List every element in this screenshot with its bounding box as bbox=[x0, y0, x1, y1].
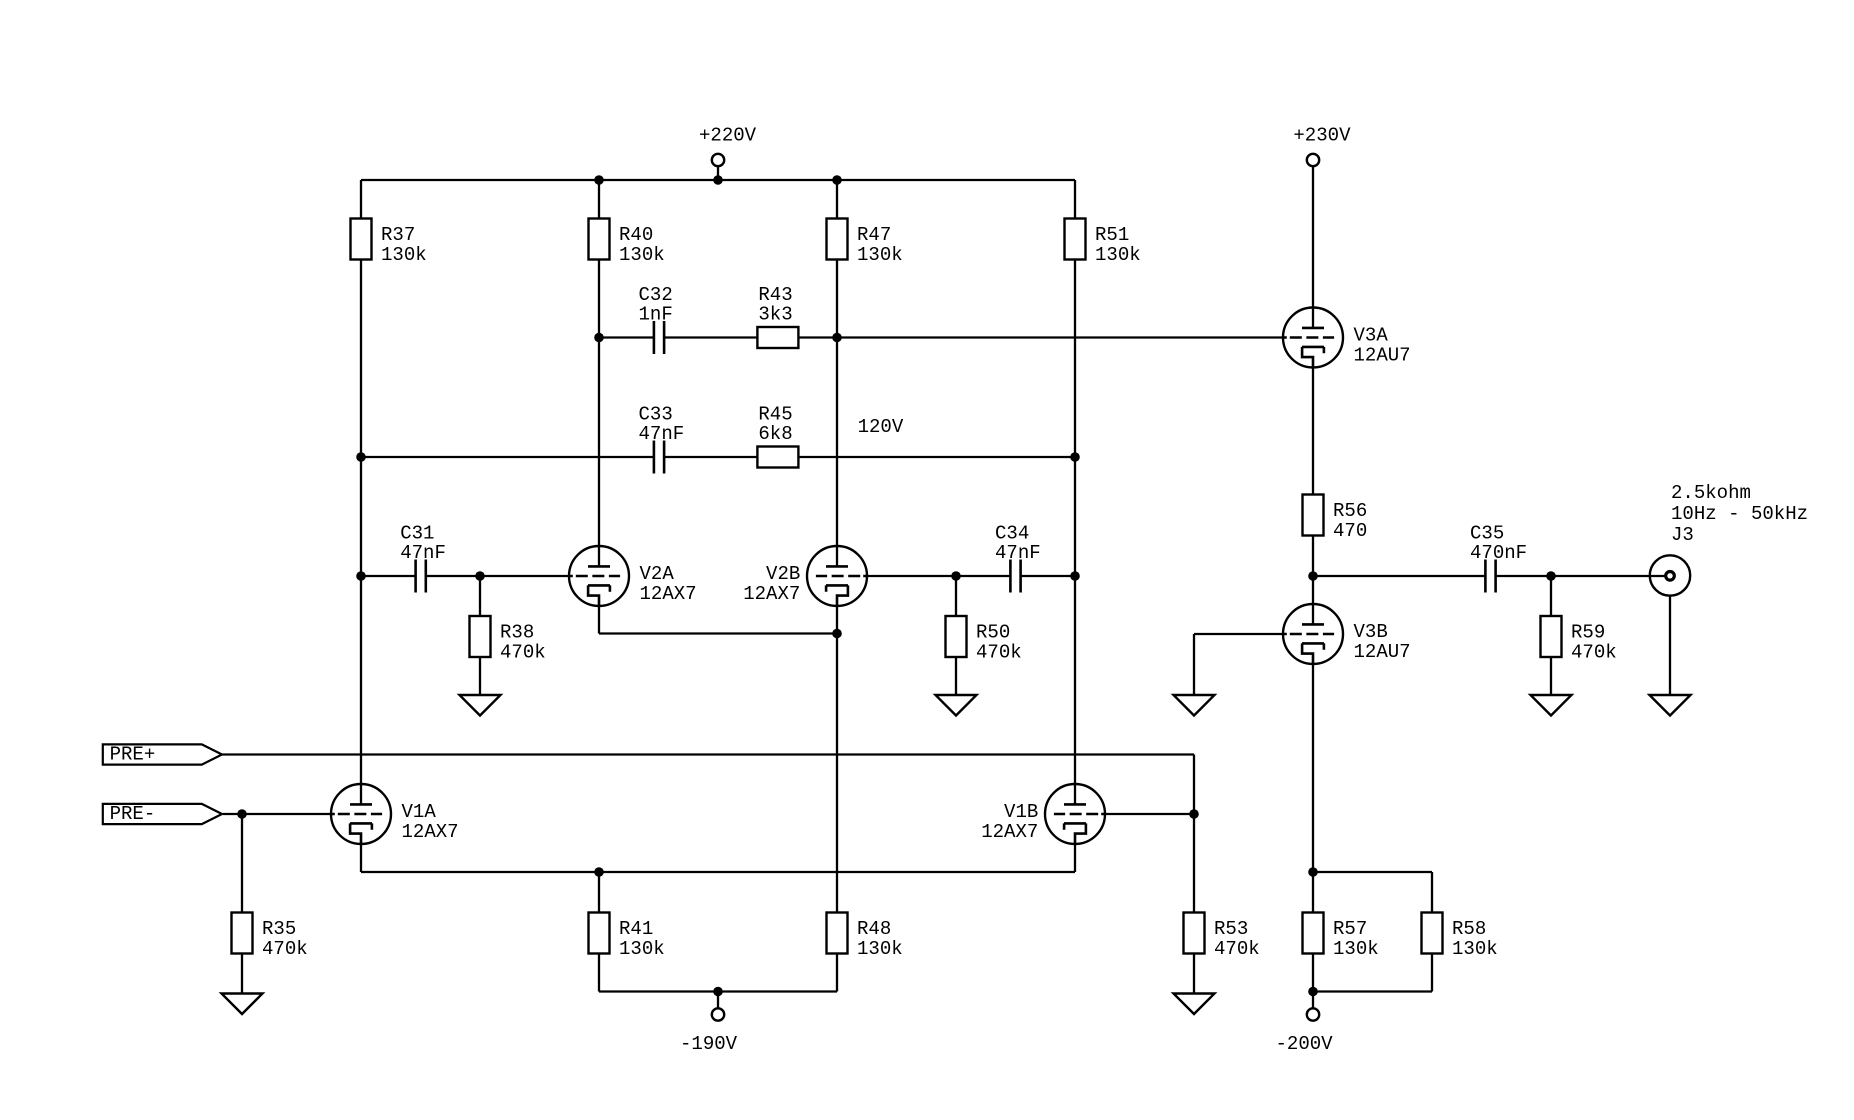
svg-text:R37: R37 bbox=[381, 224, 415, 246]
junction bbox=[832, 629, 842, 639]
svg-text:47nF: 47nF bbox=[995, 542, 1041, 564]
wire R35 stem bbox=[241, 814, 243, 994]
ground R38 bbox=[460, 695, 501, 716]
resistor R51 bbox=[1065, 219, 1141, 267]
junction bbox=[237, 809, 247, 819]
wire C35 to J3 bbox=[1496, 575, 1665, 577]
svg-text:-200V: -200V bbox=[1276, 1033, 1334, 1055]
wire R47 to V2B plate bbox=[836, 180, 838, 566]
resistor R45 bbox=[757, 404, 798, 468]
resistor R57 bbox=[1303, 913, 1379, 961]
resistor R48 bbox=[827, 913, 903, 961]
resistor R59 bbox=[1541, 616, 1617, 664]
svg-text:V3B: V3B bbox=[1354, 621, 1388, 643]
wire C32/R43 to V3A grid bbox=[664, 336, 1287, 338]
capacitor C33 bbox=[639, 404, 685, 474]
svg-text:R47: R47 bbox=[857, 224, 891, 246]
svg-text:2.5kohm: 2.5kohm bbox=[1671, 482, 1751, 504]
input flag PRE- bbox=[103, 803, 222, 825]
svg-text:3k3: 3k3 bbox=[758, 304, 792, 326]
wire R37 to V1A plate bbox=[360, 576, 362, 804]
ground R50 bbox=[936, 695, 977, 716]
svg-text:R38: R38 bbox=[500, 622, 534, 644]
svg-text:R35: R35 bbox=[262, 918, 296, 940]
svg-text:12AU7: 12AU7 bbox=[1354, 345, 1411, 367]
svg-text:10Hz - 50kHz: 10Hz - 50kHz bbox=[1671, 503, 1808, 525]
junction bbox=[1308, 867, 1318, 877]
svg-text:R58: R58 bbox=[1452, 918, 1486, 940]
wire R50 stem bbox=[955, 576, 957, 695]
junction bbox=[1070, 452, 1080, 462]
ground R53 bbox=[1174, 994, 1215, 1015]
wire V1A plate node to C33 bbox=[361, 456, 653, 458]
wire J3 ground stem bbox=[1669, 596, 1671, 695]
junction bbox=[1189, 809, 1199, 819]
wire V1A cathode down bbox=[360, 834, 362, 872]
svg-text:V1B: V1B bbox=[1004, 801, 1038, 823]
svg-text:R51: R51 bbox=[1095, 224, 1129, 246]
svg-text:1nF: 1nF bbox=[639, 304, 673, 326]
svg-text:PRE+: PRE+ bbox=[110, 743, 156, 765]
connector J3 bbox=[1650, 482, 1808, 596]
wire R56 node to V3B plate bbox=[1312, 576, 1314, 624]
wire R51 to V1B plate bbox=[1074, 180, 1076, 804]
wire to R58 top bbox=[1313, 871, 1432, 873]
svg-text:12AU7: 12AU7 bbox=[1354, 641, 1411, 663]
junction bbox=[594, 175, 604, 185]
svg-text:470k: 470k bbox=[976, 642, 1022, 664]
junction bbox=[951, 571, 961, 581]
svg-text:47nF: 47nF bbox=[639, 423, 685, 445]
wire C31 to V2A grid bbox=[426, 575, 573, 577]
junction bbox=[594, 867, 604, 877]
svg-text:12AX7: 12AX7 bbox=[402, 821, 459, 843]
wire R37 column bbox=[360, 180, 362, 576]
wire +220V rail bbox=[361, 179, 1075, 181]
svg-text:R57: R57 bbox=[1333, 918, 1367, 940]
wire V3B cathode to R57 bbox=[1312, 654, 1314, 992]
resistor R53 bbox=[1184, 913, 1260, 961]
svg-text:130k: 130k bbox=[857, 244, 903, 266]
junction bbox=[713, 987, 723, 997]
capacitor C35 bbox=[1470, 523, 1527, 593]
svg-text:470k: 470k bbox=[1571, 642, 1617, 664]
triode V2B 12AX7 bbox=[743, 546, 867, 608]
svg-text:12AX7: 12AX7 bbox=[981, 821, 1038, 843]
wire R40 node to C32 bbox=[599, 336, 654, 338]
svg-text:12AX7: 12AX7 bbox=[743, 583, 800, 605]
svg-text:470nF: 470nF bbox=[1470, 542, 1527, 564]
ground R35 bbox=[222, 994, 263, 1015]
svg-text:130k: 130k bbox=[619, 244, 665, 266]
svg-text:R56: R56 bbox=[1333, 500, 1367, 522]
svg-text:130k: 130k bbox=[1333, 938, 1379, 960]
wire V1B grid bbox=[1101, 813, 1194, 815]
wire R58 bottom return bbox=[1313, 990, 1432, 992]
svg-text:PRE-: PRE- bbox=[110, 803, 156, 825]
junction bbox=[1308, 987, 1318, 997]
power terminal -200V bbox=[1276, 1008, 1334, 1055]
wire -190V stem bbox=[717, 992, 719, 1010]
wire R58 column bbox=[1431, 872, 1433, 992]
wire PRE- to V1A grid bbox=[223, 813, 335, 815]
wire V2A to V2B cathode bbox=[599, 632, 837, 634]
junction bbox=[1308, 571, 1318, 581]
wire V2B cathode through R48 bbox=[836, 596, 838, 992]
junction bbox=[1546, 571, 1556, 581]
resistor R37 bbox=[351, 219, 427, 267]
resistor R43 bbox=[757, 284, 798, 348]
wire +230V to V3A plate bbox=[1312, 165, 1314, 328]
junction bbox=[594, 333, 604, 343]
svg-text:V3A: V3A bbox=[1354, 325, 1389, 347]
wire V1 cathode rail bbox=[361, 871, 1075, 873]
svg-text:V1A: V1A bbox=[402, 801, 437, 823]
wire V3B grid bbox=[1194, 633, 1287, 635]
svg-text:470: 470 bbox=[1333, 520, 1367, 542]
svg-text:V2A: V2A bbox=[640, 563, 675, 585]
wire V2A cathode down bbox=[598, 596, 600, 634]
svg-text:130k: 130k bbox=[1095, 244, 1141, 266]
triode V3A 12AU7 bbox=[1283, 307, 1411, 369]
capacitor C32 bbox=[639, 284, 673, 354]
resistor R41 bbox=[589, 913, 665, 961]
resistor R56 bbox=[1303, 495, 1368, 543]
svg-text:130k: 130k bbox=[857, 938, 903, 960]
svg-text:-190V: -190V bbox=[680, 1033, 738, 1055]
wire V2B grid to C34 bbox=[863, 575, 1010, 577]
resistor R58 bbox=[1422, 913, 1498, 961]
junction bbox=[713, 175, 723, 185]
wire -200V stem bbox=[1312, 992, 1314, 1010]
svg-text:120V: 120V bbox=[858, 416, 904, 438]
wire R41 column bbox=[598, 872, 600, 992]
svg-text:R41: R41 bbox=[619, 918, 653, 940]
ground V3B grid bbox=[1174, 695, 1215, 716]
resistor R47 bbox=[827, 219, 903, 267]
wire R59 stem bbox=[1550, 576, 1552, 695]
triode V1A 12AX7 bbox=[331, 784, 459, 846]
svg-text:R48: R48 bbox=[857, 918, 891, 940]
junction bbox=[832, 333, 842, 343]
power terminal -190V bbox=[680, 1008, 738, 1055]
triode V2A 12AX7 bbox=[569, 546, 697, 608]
wire C33/R45 to V1B plate node bbox=[665, 456, 1076, 458]
wire R38 stem bbox=[479, 576, 481, 695]
wire R53 stem bbox=[1193, 814, 1195, 994]
capacitor C34 bbox=[995, 523, 1041, 593]
wire V3A cathode to R56 bbox=[1312, 358, 1314, 577]
svg-text:130k: 130k bbox=[381, 244, 427, 266]
svg-text:6k8: 6k8 bbox=[758, 423, 792, 445]
svg-text:130k: 130k bbox=[1452, 938, 1498, 960]
power terminal +230V bbox=[1293, 125, 1351, 167]
svg-text:+220V: +220V bbox=[699, 125, 757, 147]
wire V1B cathode down bbox=[1074, 834, 1076, 872]
svg-text:12AX7: 12AX7 bbox=[640, 583, 697, 605]
wire V3B grid to ground bbox=[1193, 634, 1195, 695]
junction bbox=[356, 571, 366, 581]
wire C34 to V1B plate node bbox=[1021, 575, 1075, 577]
triode V3B 12AU7 bbox=[1283, 604, 1411, 666]
wire V3 output to C35 bbox=[1313, 575, 1485, 577]
input flag PRE+ bbox=[103, 743, 222, 765]
power terminal +220V bbox=[699, 125, 757, 167]
wire -190V rail bbox=[599, 990, 837, 992]
wire PRE+ down bbox=[1193, 755, 1195, 815]
wire PRE+ to V1B grid bbox=[222, 753, 1194, 755]
capacitor C31 bbox=[400, 523, 446, 593]
svg-text:470k: 470k bbox=[262, 938, 308, 960]
junction bbox=[475, 571, 485, 581]
svg-text:R53: R53 bbox=[1214, 918, 1248, 940]
svg-text:470k: 470k bbox=[500, 642, 546, 664]
resistor R50 bbox=[946, 616, 1022, 664]
junction bbox=[356, 452, 366, 462]
ground J3 bbox=[1650, 695, 1691, 716]
svg-text:J3: J3 bbox=[1671, 524, 1694, 546]
svg-text:130k: 130k bbox=[619, 938, 665, 960]
svg-text:V2B: V2B bbox=[766, 563, 800, 585]
junction bbox=[832, 175, 842, 185]
svg-text:R50: R50 bbox=[976, 622, 1010, 644]
svg-text:R40: R40 bbox=[619, 224, 653, 246]
svg-text:47nF: 47nF bbox=[400, 542, 446, 564]
resistor R40 bbox=[589, 219, 665, 267]
resistor R38 bbox=[470, 616, 546, 664]
wire R40 to V2A plate bbox=[598, 180, 600, 566]
resistor R35 bbox=[232, 913, 308, 961]
wire V1A node to C31 bbox=[361, 575, 416, 577]
wire +220V stem bbox=[717, 165, 719, 180]
svg-text:R59: R59 bbox=[1571, 622, 1605, 644]
ground R59 bbox=[1531, 695, 1572, 716]
svg-text:470k: 470k bbox=[1214, 938, 1260, 960]
svg-text:+230V: +230V bbox=[1293, 125, 1351, 147]
triode V1B 12AX7 bbox=[981, 784, 1105, 846]
junction bbox=[1070, 571, 1080, 581]
